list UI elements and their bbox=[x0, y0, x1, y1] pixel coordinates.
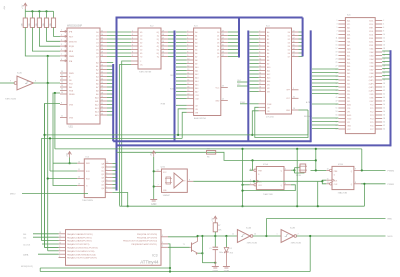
svg-text:ATTiny44: ATTiny44 bbox=[140, 259, 159, 264]
svg-text:PWM2: PWM2 bbox=[388, 171, 395, 173]
svg-text:C1: C1 bbox=[209, 248, 211, 250]
vertical clock to lower rail bbox=[317, 181, 319, 206]
svg-text:A13: A13 bbox=[95, 107, 98, 110]
vertical reset cap branch bbox=[201, 236, 203, 263]
svg-text:12: 12 bbox=[259, 65, 261, 67]
wire IC3 CE from bus bbox=[176, 104, 187, 106]
wire reset net to inverter bbox=[198, 235, 238, 237]
svg-text:12: 12 bbox=[293, 55, 295, 57]
FF1 pin CLK bbox=[250, 180, 257, 182]
svg-text:23: 23 bbox=[336, 58, 338, 60]
svg-text:MX/DTB: MX/DTB bbox=[69, 41, 77, 43]
svg-text:6: 6 bbox=[187, 44, 188, 46]
svg-text:D2: D2 bbox=[217, 39, 219, 41]
svg-text:13: 13 bbox=[222, 51, 224, 53]
svg-text:AS6C62256: AS6C62256 bbox=[194, 117, 207, 120]
svg-text:1: 1 bbox=[106, 165, 107, 167]
green rail WE net bbox=[42, 137, 183, 139]
svg-text:17: 17 bbox=[101, 89, 103, 91]
svg-text:2: 2 bbox=[187, 30, 188, 32]
wire IC4 OE loop bbox=[255, 107, 308, 137]
svg-text:+5V: +5V bbox=[66, 153, 68, 157]
svg-text:5: 5 bbox=[106, 179, 107, 181]
svg-text:XD4L: XD4L bbox=[369, 35, 373, 37]
svg-text:A2: A2 bbox=[96, 68, 98, 71]
svg-text:P200: P200 bbox=[347, 119, 351, 121]
svg-text:A9: A9 bbox=[195, 62, 197, 65]
svg-text:DATA: DATA bbox=[23, 254, 29, 257]
wire IC2A out to IC2B in bbox=[253, 235, 281, 237]
svg-text:2: 2 bbox=[61, 30, 62, 32]
svg-text:4: 4 bbox=[106, 176, 107, 178]
svg-text:B3L: B3L bbox=[347, 87, 350, 89]
svg-text:(CAP): (CAP) bbox=[369, 76, 374, 79]
svg-text:12: 12 bbox=[101, 71, 103, 73]
svg-text:A3: A3 bbox=[96, 72, 98, 75]
svg-text:32: 32 bbox=[61, 78, 63, 80]
FF2 pin Qbar bbox=[354, 183, 361, 185]
bus vertical connector left bbox=[310, 30, 312, 142]
svg-text:1: 1 bbox=[250, 183, 251, 185]
svg-text:5: 5 bbox=[162, 235, 163, 237]
svg-text:A3: A3 bbox=[195, 41, 197, 44]
svg-text:XD0L: XD0L bbox=[369, 21, 373, 23]
svg-text:R7: R7 bbox=[218, 225, 220, 227]
svg-text:IOA6: IOA6 bbox=[370, 65, 374, 68]
svg-text:14: 14 bbox=[157, 169, 159, 171]
svg-text:34: 34 bbox=[383, 76, 385, 78]
CLR wire bbox=[322, 181, 326, 184]
svg-text:IOA1: IOA1 bbox=[370, 48, 374, 51]
svg-text:21: 21 bbox=[101, 44, 103, 46]
bundle corners into ATTiny bbox=[42, 240, 59, 242]
svg-text:14: 14 bbox=[259, 72, 261, 74]
svg-text:20: 20 bbox=[101, 48, 103, 50]
wire PWM1 net bbox=[361, 183, 386, 185]
svg-text:25: 25 bbox=[336, 62, 338, 64]
svg-text:A3: A3 bbox=[267, 41, 269, 44]
wires resistors to IC1 pins bbox=[54, 28, 61, 37]
svg-text:16: 16 bbox=[259, 79, 261, 81]
wire IC1 E down-left bbox=[45, 104, 61, 248]
svg-text:A14: A14 bbox=[267, 80, 270, 83]
svg-text:CE2: CE2 bbox=[170, 75, 174, 77]
svg-text:21: 21 bbox=[61, 116, 63, 118]
svg-text:11: 11 bbox=[187, 62, 189, 64]
ground osc bbox=[150, 199, 157, 201]
svg-text:18: 18 bbox=[383, 48, 385, 50]
svg-text:13: 13 bbox=[187, 69, 189, 71]
svg-text:B1L: B1L bbox=[347, 80, 350, 82]
svg-text:B6L: B6L bbox=[347, 98, 350, 100]
svg-text:74HCT573N: 74HCT573N bbox=[139, 72, 152, 74]
svg-text:+5V: +5V bbox=[212, 217, 214, 221]
svg-text:8: 8 bbox=[61, 103, 62, 105]
svg-text:PC2: PC2 bbox=[370, 112, 373, 114]
zener diode D1 bbox=[225, 236, 227, 248]
svg-text:RESB: RESB bbox=[69, 94, 75, 96]
svg-text:IOA4: IOA4 bbox=[370, 58, 374, 61]
svg-text:A17: A17 bbox=[195, 90, 198, 93]
svg-text:IOA5: IOA5 bbox=[370, 62, 374, 65]
svg-text:AVL: AVL bbox=[347, 44, 350, 47]
bus top horizontal bbox=[116, 17, 303, 19]
svg-text:10: 10 bbox=[383, 34, 385, 36]
bus horizontal lower bbox=[117, 144, 391, 146]
svg-text:IC2A: IC2A bbox=[246, 226, 251, 229]
green rail mid lower bbox=[120, 205, 365, 207]
svg-text:A12: A12 bbox=[95, 103, 98, 106]
svg-text:GND: GND bbox=[224, 270, 230, 273]
svg-text:(CAP): (CAP) bbox=[369, 90, 374, 93]
svg-text:2: 2 bbox=[298, 234, 299, 236]
svg-text:21: 21 bbox=[187, 97, 189, 99]
svg-text:1: 1 bbox=[293, 88, 294, 90]
FF1 pin CLR bbox=[254, 184, 256, 186]
svg-text:10: 10 bbox=[187, 58, 189, 60]
svg-text:11: 11 bbox=[78, 169, 80, 171]
svg-text:13: 13 bbox=[59, 232, 61, 234]
svg-text:51: 51 bbox=[336, 107, 338, 109]
svg-text:12: 12 bbox=[383, 37, 385, 39]
svg-text:K0L: K0L bbox=[347, 31, 350, 33]
svg-text:R6: R6 bbox=[207, 157, 209, 159]
svg-text:18: 18 bbox=[162, 34, 164, 36]
FF1 pin Qbar bbox=[284, 184, 291, 186]
FF2 pin Q bbox=[354, 169, 361, 171]
IC3 right data pins bbox=[221, 31, 228, 33]
green rail phi2 bbox=[55, 148, 362, 150]
svg-text:A9L: A9L bbox=[347, 55, 350, 58]
svg-text:19: 19 bbox=[293, 30, 295, 32]
svg-text:9: 9 bbox=[59, 246, 60, 248]
svg-text:35: 35 bbox=[61, 89, 63, 91]
svg-text:32: 32 bbox=[293, 96, 295, 98]
svg-text:330: 330 bbox=[207, 149, 210, 151]
svg-text:A6: A6 bbox=[267, 52, 269, 55]
svg-text:A10: A10 bbox=[267, 66, 270, 69]
svg-text:IRQB: IRQB bbox=[69, 46, 75, 48]
svg-text:MISO: MISO bbox=[10, 194, 16, 196]
wire IC3 OE down bbox=[178, 109, 187, 135]
svg-text:1: 1 bbox=[336, 20, 337, 22]
svg-text:6: 6 bbox=[285, 183, 286, 185]
svg-text:RED: RED bbox=[388, 219, 393, 221]
svg-text:19: 19 bbox=[259, 90, 261, 92]
svg-text:9: 9 bbox=[132, 55, 133, 57]
svg-text:3: 3 bbox=[187, 34, 188, 36]
svg-text:14: 14 bbox=[222, 99, 224, 101]
svg-text:100n: 100n bbox=[219, 252, 223, 254]
svg-text:26: 26 bbox=[383, 62, 385, 64]
svg-text:7: 7 bbox=[336, 30, 337, 32]
ground C1 bbox=[212, 266, 219, 268]
svg-text:A11: A11 bbox=[95, 100, 98, 103]
bus vertical rom address bbox=[247, 31, 249, 142]
svg-text:PA4(ADC4/USCK/SCL/PCINT4): PA4(ADC4/USCK/SCL/PCINT4) bbox=[67, 247, 98, 250]
svg-text:MOD: MOD bbox=[388, 236, 394, 238]
osc pins bbox=[156, 170, 162, 172]
svg-text:9: 9 bbox=[355, 169, 356, 171]
svg-text:13: 13 bbox=[259, 69, 261, 71]
svg-text:16: 16 bbox=[293, 41, 295, 43]
svg-text:A12: A12 bbox=[195, 73, 198, 76]
svg-text:17: 17 bbox=[222, 37, 224, 39]
svg-text:8: 8 bbox=[61, 59, 62, 61]
svg-text:11: 11 bbox=[327, 178, 329, 180]
svg-text:2: 2 bbox=[383, 20, 384, 22]
svg-text:3: 3 bbox=[106, 172, 107, 174]
vcc arrow osc bbox=[152, 151, 156, 157]
svg-text:A10: A10 bbox=[95, 96, 98, 99]
svg-text:14: 14 bbox=[293, 48, 295, 50]
svg-text:XD3L: XD3L bbox=[369, 31, 373, 33]
bus vertical rom data bbox=[302, 18, 304, 57]
svg-text:4: 4 bbox=[61, 39, 62, 41]
svg-text:13: 13 bbox=[101, 75, 103, 77]
svg-text:D5: D5 bbox=[96, 49, 98, 51]
svg-text:PC3: PC3 bbox=[370, 115, 373, 117]
svg-text:21: 21 bbox=[101, 103, 103, 105]
svg-text:A13: A13 bbox=[195, 76, 198, 79]
feedback vertical left bbox=[315, 149, 317, 171]
svg-text:10: 10 bbox=[254, 234, 256, 236]
svg-text:17: 17 bbox=[187, 83, 189, 85]
svg-text:VSS: VSS bbox=[69, 105, 74, 107]
svg-text:PA6(ADC6/MOSI/SDA/OC1A): PA6(ADC6/MOSI/SDA/OC1A) bbox=[67, 253, 96, 256]
FF1 wire PRE from clock rail bbox=[250, 160, 253, 170]
svg-text:12: 12 bbox=[187, 65, 189, 67]
svg-text:40: 40 bbox=[383, 86, 385, 88]
svg-text:6: 6 bbox=[59, 256, 60, 258]
svg-text:PC5: PC5 bbox=[370, 122, 373, 124]
svg-text:D7: D7 bbox=[288, 56, 290, 58]
svg-text:A1: A1 bbox=[195, 34, 197, 37]
svg-text:PA1(ADC1/AIN0/PCINT1): PA1(ADC1/AIN0/PCINT1) bbox=[67, 236, 92, 239]
svg-text:53: 53 bbox=[336, 111, 338, 113]
svg-text:(CAP): (CAP) bbox=[369, 83, 374, 86]
svg-text:32: 32 bbox=[383, 72, 385, 74]
svg-text:12: 12 bbox=[162, 55, 164, 57]
svg-text:44: 44 bbox=[383, 93, 385, 95]
svg-text:A9: A9 bbox=[267, 62, 269, 65]
svg-text:54: 54 bbox=[383, 111, 385, 113]
svg-text:CS2: CS2 bbox=[195, 98, 199, 100]
svg-text:7: 7 bbox=[59, 253, 60, 255]
wire R1 to pin and reset node bbox=[25, 28, 60, 57]
svg-text:IOA2: IOA2 bbox=[370, 51, 374, 54]
svg-text:A9: A9 bbox=[96, 93, 98, 96]
svg-text:(CAP): (CAP) bbox=[369, 86, 374, 89]
svg-text:50: 50 bbox=[383, 104, 385, 106]
svg-text:16: 16 bbox=[187, 79, 189, 81]
svg-text:NMIB: NMIB bbox=[69, 56, 75, 58]
svg-text:PC7: PC7 bbox=[370, 129, 373, 131]
svg-text:2: 2 bbox=[106, 169, 107, 171]
svg-text:19: 19 bbox=[101, 51, 103, 53]
wire IC3 WE down bbox=[182, 112, 186, 138]
svg-text:47: 47 bbox=[336, 100, 338, 102]
svg-text:14: 14 bbox=[101, 78, 103, 80]
svg-text:13: 13 bbox=[162, 51, 164, 53]
wire inverter input bbox=[0, 82, 14, 84]
svg-text:13: 13 bbox=[78, 184, 80, 186]
svg-text:GND: GND bbox=[151, 203, 157, 206]
svg-text:19: 19 bbox=[336, 51, 338, 53]
wires to IC5 pins bbox=[53, 162, 77, 164]
svg-text:U$1: U$1 bbox=[69, 126, 74, 129]
wires connector left pins from bus bbox=[312, 68, 338, 70]
svg-text:A11: A11 bbox=[267, 69, 270, 72]
wires connector right pins to bus bbox=[382, 50, 390, 52]
svg-text:2: 2 bbox=[132, 30, 133, 32]
svg-text:22: 22 bbox=[101, 41, 103, 43]
svg-text:A0: A0 bbox=[195, 31, 197, 34]
svg-text:15: 15 bbox=[293, 44, 295, 46]
svg-text:18: 18 bbox=[101, 92, 103, 94]
svg-text:19: 19 bbox=[187, 90, 189, 92]
svg-text:9: 9 bbox=[187, 55, 188, 57]
svg-text:6: 6 bbox=[106, 183, 107, 185]
svg-text:11: 11 bbox=[59, 239, 61, 241]
svg-text:5: 5 bbox=[61, 44, 62, 46]
svg-text:16MHZ: 16MHZ bbox=[163, 195, 171, 197]
svg-text:PGM: PGM bbox=[267, 104, 272, 106]
svg-text:11: 11 bbox=[259, 62, 261, 64]
svg-text:B5L: B5L bbox=[347, 94, 350, 96]
svg-text:22: 22 bbox=[383, 55, 385, 57]
svg-text:12: 12 bbox=[78, 177, 80, 179]
svg-text:A1: A1 bbox=[96, 65, 98, 68]
svg-text:10: 10 bbox=[259, 58, 261, 60]
svg-text:A2: A2 bbox=[195, 38, 197, 41]
svg-text:D4: D4 bbox=[288, 46, 290, 48]
resistor R7 10K bbox=[213, 223, 217, 232]
svg-text:21: 21 bbox=[336, 55, 338, 57]
svg-text:B2L: B2L bbox=[347, 84, 350, 86]
FF1 wire CLR from vertical bbox=[243, 184, 250, 186]
svg-text:24: 24 bbox=[101, 34, 103, 36]
svg-text:6: 6 bbox=[61, 49, 62, 51]
svg-text:0T1: 0T1 bbox=[347, 122, 350, 124]
svg-text:PA0(ADC0/AREF/PCINT0): PA0(ADC0/AREF/PCINT0) bbox=[67, 233, 93, 236]
svg-text:17: 17 bbox=[259, 83, 261, 85]
svg-text:PA7(ADC7/ICP/OC0B/PCINT7): PA7(ADC7/ICP/OC0B/PCINT7) bbox=[67, 257, 97, 260]
svg-text:A5: A5 bbox=[195, 48, 197, 51]
wire latch C down bbox=[122, 61, 131, 206]
svg-text:9: 9 bbox=[259, 55, 260, 57]
svg-text:D6: D6 bbox=[217, 53, 219, 55]
svg-text:AHL: AHL bbox=[347, 34, 350, 37]
svg-text:16: 16 bbox=[222, 41, 224, 43]
svg-text:25: 25 bbox=[101, 30, 103, 32]
svg-text:74HCT14N: 74HCT14N bbox=[291, 243, 302, 245]
svg-text:18: 18 bbox=[187, 86, 189, 88]
svg-text:23: 23 bbox=[101, 37, 103, 39]
svg-text:5: 5 bbox=[259, 41, 260, 43]
svg-text:PC0: PC0 bbox=[370, 105, 373, 107]
FF2 pin PRE bbox=[330, 169, 332, 171]
svg-text:ADL: ADL bbox=[347, 65, 350, 68]
svg-text:7: 7 bbox=[106, 186, 107, 188]
svg-text:GND: GND bbox=[213, 270, 219, 273]
wire IC2B out MOD net bbox=[297, 235, 386, 237]
svg-text:9: 9 bbox=[101, 61, 102, 63]
svg-text:4: 4 bbox=[187, 37, 188, 39]
svg-text:XD1L: XD1L bbox=[369, 24, 373, 26]
svg-text:8: 8 bbox=[383, 30, 384, 32]
wire IC1 RESB down-left bbox=[53, 93, 77, 186]
svg-text:MOSI(CLK2): MOSI(CLK2) bbox=[21, 266, 33, 268]
svg-text:(CAP): (CAP) bbox=[369, 79, 374, 82]
svg-text:A5: A5 bbox=[267, 48, 269, 51]
wire emitter to vertical bbox=[198, 252, 203, 254]
svg-text:GND: GND bbox=[286, 110, 291, 112]
svg-text:D2: D2 bbox=[288, 39, 290, 41]
svg-text:36: 36 bbox=[61, 92, 63, 94]
svg-text:74HC595N: 74HC595N bbox=[82, 200, 93, 202]
FF1 pin Q bbox=[284, 169, 291, 171]
FF1 pin PRE bbox=[254, 169, 256, 171]
wire PWM2 net bbox=[361, 169, 386, 171]
svg-text:4: 4 bbox=[383, 23, 384, 25]
svg-text:XD6L: XD6L bbox=[369, 42, 373, 44]
wire down to inverter output node bbox=[47, 56, 49, 83]
svg-text:D0: D0 bbox=[288, 32, 290, 34]
svg-text:+5V: +5V bbox=[22, 4, 24, 8]
svg-text:16: 16 bbox=[101, 85, 103, 87]
bus data IC1 bbox=[238, 18, 240, 58]
svg-text:A13: A13 bbox=[267, 76, 270, 79]
wire data D0-D7 IC1 to IC2 bbox=[107, 31, 131, 33]
svg-text:CS1: CS1 bbox=[195, 95, 199, 97]
svg-text:8: 8 bbox=[259, 51, 260, 53]
wire ATTiny pin3 loop bottom bbox=[168, 244, 170, 272]
svg-text:1: 1 bbox=[277, 234, 278, 236]
svg-text:IOA7: IOA7 bbox=[370, 69, 374, 72]
svg-text:74AC74N: 74AC74N bbox=[338, 191, 348, 194]
svg-text:AWL: AWL bbox=[347, 48, 351, 51]
svg-text:A8: A8 bbox=[267, 59, 269, 62]
svg-text:8: 8 bbox=[59, 249, 60, 251]
svg-text:4: 4 bbox=[259, 37, 260, 39]
svg-text:12: 12 bbox=[59, 236, 61, 238]
svg-text:PC4: PC4 bbox=[370, 119, 373, 121]
svg-text:A0: A0 bbox=[267, 31, 269, 34]
svg-text:74HCT14N: 74HCT14N bbox=[5, 99, 16, 101]
svg-text:10: 10 bbox=[59, 242, 61, 244]
svg-text:30: 30 bbox=[383, 69, 385, 71]
svg-text:P20: P20 bbox=[347, 108, 350, 110]
svg-text:D7: D7 bbox=[217, 56, 219, 58]
svg-text:27C256: 27C256 bbox=[266, 117, 274, 119]
svg-text:D0: D0 bbox=[217, 32, 219, 34]
svg-text:8: 8 bbox=[189, 179, 190, 181]
svg-text:14: 14 bbox=[383, 41, 385, 43]
svg-text:15: 15 bbox=[187, 76, 189, 78]
svg-text:13: 13 bbox=[336, 41, 338, 43]
svg-text:PA2(ADC2/AIN1/PCINT2): PA2(ADC2/AIN1/PCINT2) bbox=[67, 240, 92, 243]
IC4 power pins VPP VCC GND bbox=[292, 89, 299, 91]
svg-text:5: 5 bbox=[285, 168, 286, 170]
svg-text:48: 48 bbox=[383, 100, 385, 102]
svg-text:PA5(ADC5/DO/MISO/OC1B): PA5(ADC5/DO/MISO/OC1B) bbox=[67, 250, 95, 253]
svg-text:9: 9 bbox=[336, 34, 337, 36]
svg-text:D1: D1 bbox=[288, 35, 290, 37]
svg-text:A10: A10 bbox=[195, 66, 198, 69]
svg-text:3: 3 bbox=[61, 34, 62, 36]
vertical right of IC4 bbox=[296, 149, 298, 206]
